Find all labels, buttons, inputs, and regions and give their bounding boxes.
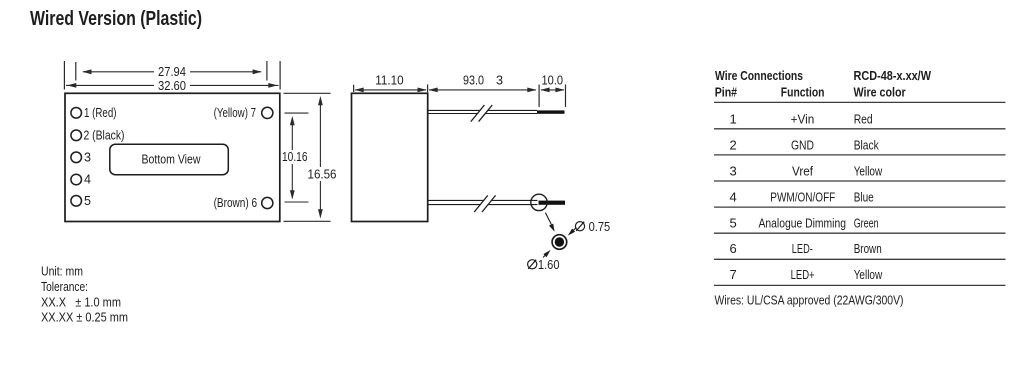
Bottom View box bbox=[110, 144, 229, 174]
dimension 93.0 3 bbox=[429, 89, 536, 91]
top wire stripped end bbox=[537, 110, 565, 113]
svg-text:Bottom View: Bottom View bbox=[142, 153, 202, 167]
svg-text:2 (Black): 2 (Black) bbox=[84, 129, 125, 143]
extension tick wire 93.0 bbox=[538, 85, 540, 108]
svg-text:LED+: LED+ bbox=[791, 267, 815, 282]
dimension 16.56 bbox=[319, 98, 321, 217]
pin 3 circle bbox=[71, 152, 82, 163]
svg-text:LED-: LED- bbox=[792, 241, 813, 256]
svg-text:Vref: Vref bbox=[792, 164, 813, 179]
svg-text:Wires: UL/CSA approved (22AWG/: Wires: UL/CSA approved (22AWG/300V) bbox=[715, 293, 904, 308]
svg-text:PWM/ON/OFF: PWM/ON/OFF bbox=[770, 189, 835, 204]
extension tick right 27.94 bbox=[266, 61, 268, 81]
dimension 11.10 bbox=[355, 89, 426, 91]
table rule 7 bbox=[714, 284, 1006, 286]
bottom wire break slashes bbox=[474, 195, 495, 212]
svg-text:5: 5 bbox=[84, 194, 91, 208]
svg-text:6: 6 bbox=[730, 241, 737, 256]
bottom wire stripped end bbox=[539, 201, 566, 205]
leader from wire circle to detail bbox=[545, 213, 552, 226]
svg-text:3: 3 bbox=[730, 164, 737, 179]
svg-text:Green: Green bbox=[854, 215, 879, 230]
pin 5 circle bbox=[71, 196, 82, 207]
table rule 1 bbox=[714, 128, 1006, 130]
svg-text:2: 2 bbox=[730, 138, 737, 153]
table rule header bbox=[714, 101, 1006, 103]
svg-text:1.60: 1.60 bbox=[538, 258, 560, 272]
svg-text:1: 1 bbox=[730, 112, 737, 127]
dimension 32.60 bbox=[66, 84, 279, 86]
side view outline bbox=[352, 93, 428, 221]
svg-text:Function: Function bbox=[781, 84, 825, 99]
wire cross-section detail outer bbox=[552, 235, 567, 250]
pin 4 circle bbox=[71, 174, 82, 185]
svg-text:4: 4 bbox=[84, 173, 91, 187]
table rule 2 bbox=[714, 154, 1006, 156]
leader 1.60 bbox=[543, 254, 547, 258]
table rule 5 bbox=[714, 232, 1006, 234]
top wire break gap bbox=[472, 105, 492, 122]
svg-text:Wired Version (Plastic): Wired Version (Plastic) bbox=[30, 7, 202, 30]
svg-text:32.60: 32.60 bbox=[158, 79, 186, 93]
svg-text:Brown: Brown bbox=[854, 241, 882, 256]
extension line top 16.56 bbox=[284, 92, 331, 94]
extension tick left 32.60 bbox=[63, 61, 65, 90]
diameter symbol 0.75 bbox=[575, 222, 584, 231]
svg-text:(Yellow) 7: (Yellow) 7 bbox=[214, 106, 257, 120]
svg-text:Red: Red bbox=[854, 112, 873, 127]
svg-text:(Brown) 6: (Brown) 6 bbox=[214, 196, 258, 210]
dimension 27.94 bbox=[83, 71, 261, 73]
bottom view outline bbox=[65, 93, 280, 221]
bottom wire break gap bbox=[475, 195, 495, 212]
top wire break slashes bbox=[471, 105, 493, 122]
svg-text:RCD-48-x.xx/W: RCD-48-x.xx/W bbox=[854, 68, 932, 83]
pin 7 circle bbox=[262, 107, 273, 118]
svg-text:1 (Red): 1 (Red) bbox=[84, 106, 117, 120]
extension line top 10.16 bbox=[285, 112, 309, 114]
svg-text:Tolerance:: Tolerance: bbox=[41, 279, 88, 294]
top wire lower line bbox=[429, 113, 538, 115]
svg-text:GND: GND bbox=[791, 138, 814, 153]
extension line bottom 16.56 bbox=[284, 220, 331, 222]
svg-text:0.75: 0.75 bbox=[589, 220, 611, 234]
svg-text:XX.XX ± 0.25 mm: XX.XX ± 0.25 mm bbox=[41, 310, 128, 325]
dimension 10.0 bbox=[541, 89, 564, 91]
leader 0.75 bbox=[572, 228, 576, 232]
bottom wire lower line bbox=[429, 204, 538, 206]
svg-text:4: 4 bbox=[730, 189, 737, 204]
svg-text:Analogue Dimming: Analogue Dimming bbox=[759, 215, 847, 230]
svg-text:5: 5 bbox=[730, 215, 737, 230]
svg-text:7: 7 bbox=[730, 267, 737, 282]
svg-text:+Vin: +Vin bbox=[791, 112, 815, 127]
table rule 3 bbox=[714, 180, 1006, 182]
bottom wire end circle bbox=[531, 194, 547, 210]
extension tick left 27.94 bbox=[75, 62, 77, 81]
diameter symbol 1.60 bbox=[528, 260, 537, 269]
svg-text:Wire Connections: Wire Connections bbox=[715, 68, 803, 83]
svg-text:Pin#: Pin# bbox=[715, 84, 738, 99]
svg-text:11.10: 11.10 bbox=[375, 73, 403, 87]
svg-text:16.56: 16.56 bbox=[308, 168, 337, 182]
extension tick right 32.60 bbox=[279, 61, 281, 90]
wire cross-section detail core bbox=[555, 237, 564, 246]
extension tick side right bbox=[427, 85, 429, 93]
svg-text:10.16: 10.16 bbox=[282, 150, 308, 164]
svg-text:XX.X ± 1.0 mm: XX.X ± 1.0 mm bbox=[41, 294, 121, 309]
top wire upper line bbox=[429, 109, 538, 111]
svg-text:3: 3 bbox=[496, 73, 503, 87]
svg-text:Unit: mm: Unit: mm bbox=[41, 263, 83, 278]
svg-text:Blue: Blue bbox=[854, 189, 874, 204]
svg-text:10.0: 10.0 bbox=[542, 73, 564, 87]
svg-text:Black: Black bbox=[854, 138, 879, 153]
pin 1 circle bbox=[71, 108, 82, 119]
pin 2 circle bbox=[71, 130, 82, 141]
svg-text:Yellow: Yellow bbox=[854, 164, 883, 179]
table rule 4 bbox=[714, 206, 1006, 208]
svg-text:Yellow: Yellow bbox=[854, 267, 883, 282]
pin 6 circle bbox=[262, 197, 273, 208]
svg-text:27.94: 27.94 bbox=[158, 65, 186, 79]
extension line bottom 10.16 bbox=[285, 201, 309, 203]
bottom wire upper line bbox=[429, 199, 538, 201]
svg-text:93.0: 93.0 bbox=[463, 73, 484, 87]
svg-text:3: 3 bbox=[84, 151, 91, 165]
extension tick side left bbox=[353, 85, 355, 92]
extension tick wire end bbox=[565, 85, 567, 108]
table rule 6 bbox=[714, 258, 1006, 260]
svg-text:Wire color: Wire color bbox=[854, 84, 906, 99]
dimension 10.16 bbox=[291, 118, 293, 198]
